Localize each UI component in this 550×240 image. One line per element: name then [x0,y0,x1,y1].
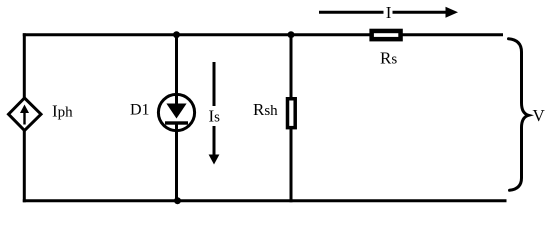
diode D1 [158,94,194,131]
svg-text:I: I [386,3,392,22]
svg-text:Is: Is [209,107,221,126]
brace output terminal [509,39,529,191]
wire bottom horizontal bus [23,199,507,202]
wire diode vertical branch [175,33,178,202]
wire shunt resistor vertical branch [290,33,293,202]
wire left vertical branch [23,33,26,202]
wire top horizontal bus [23,33,503,36]
current source Iph [9,98,42,131]
resistor Rsh [288,99,296,128]
junction dot top shunt node [288,31,295,38]
svg-text:D1: D1 [130,101,150,118]
arrow Is current [209,62,220,165]
arrow I output current [319,7,458,18]
svg-text:Rsh: Rsh [253,100,278,119]
junction dot top diode node [173,31,180,38]
junction dot bottom diode node [174,197,181,204]
svg-text:Iph: Iph [52,102,73,121]
resistor Rs [372,31,401,39]
svg-text:Rs: Rs [380,49,397,68]
svg-text:V: V [533,106,546,125]
